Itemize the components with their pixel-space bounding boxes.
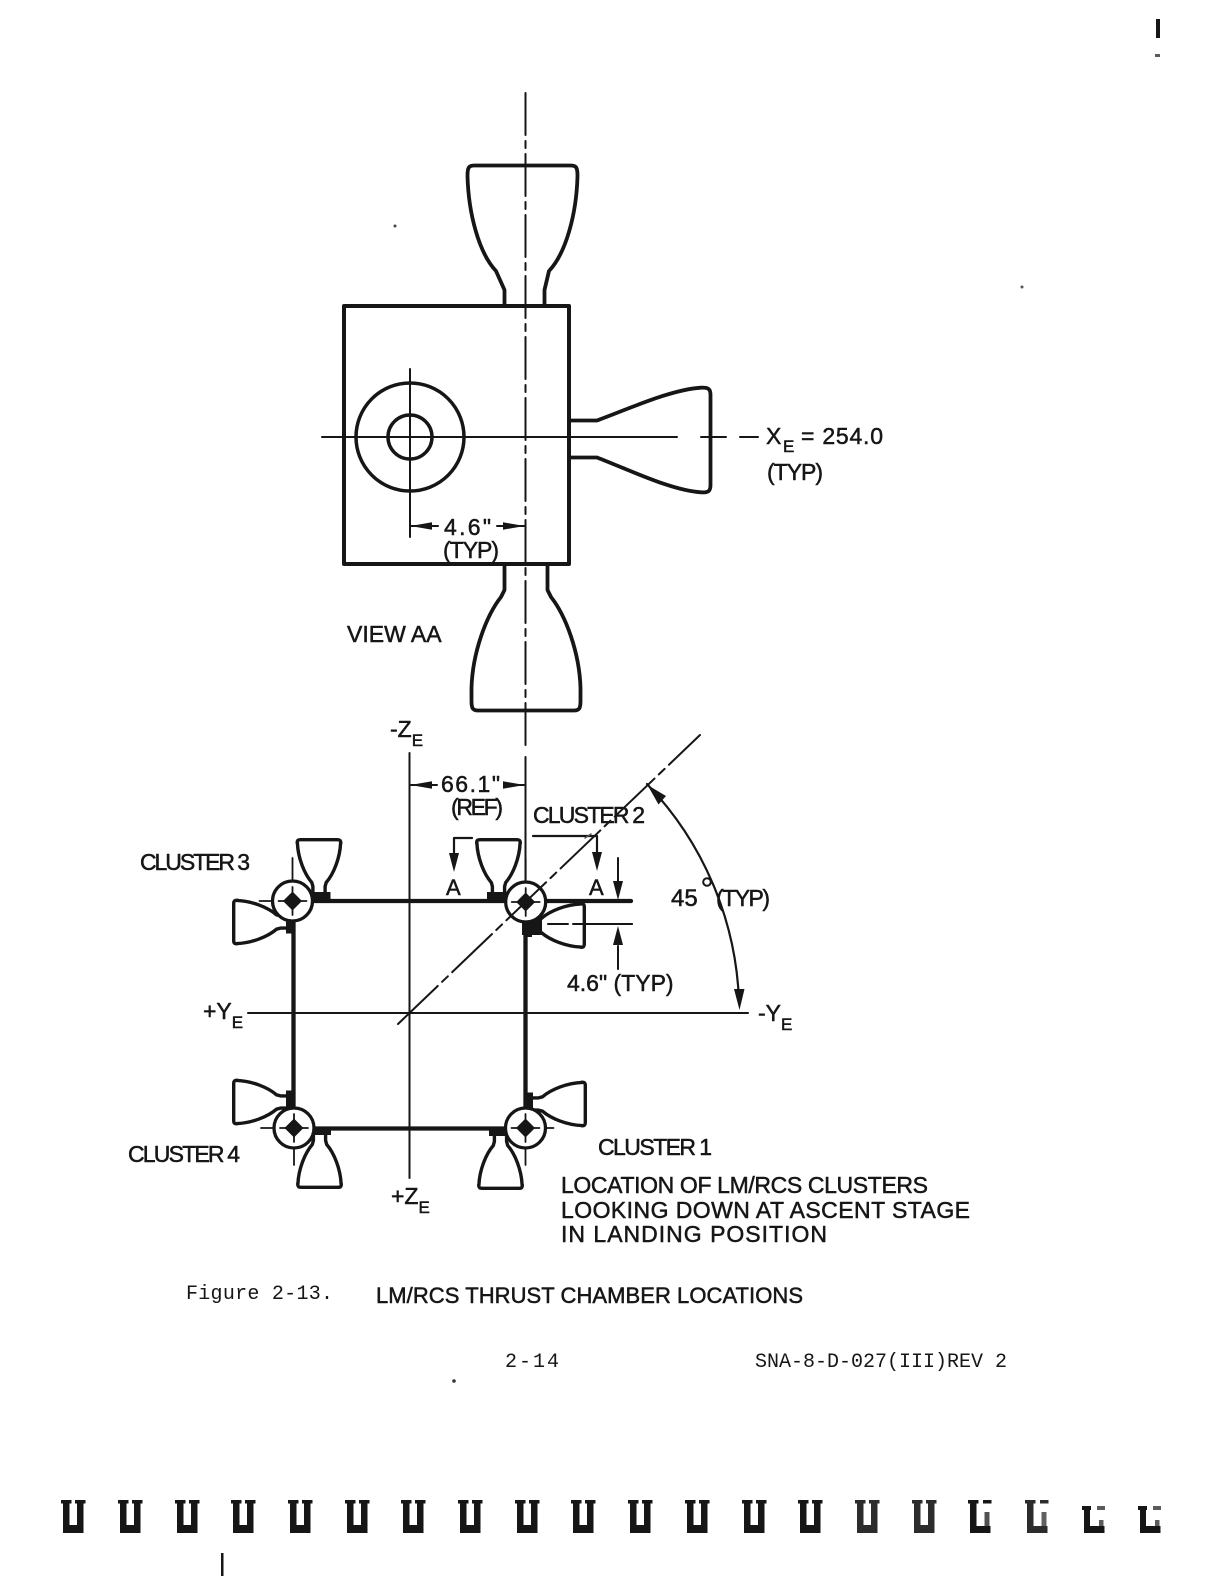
node: paper speck 3: [452, 1379, 456, 1383]
node: square interconnect top edge: [293, 899, 632, 903]
dimension: 45 degree arc with arrows: [647, 784, 739, 1001]
wire: 45 degree diagonal dash-dot line: [398, 735, 700, 1024]
node: square interconnect left edge: [291, 901, 295, 1128]
cluster 1 right nozzle: [525, 1082, 586, 1126]
svg-text:(TYP): (TYP): [716, 885, 770, 911]
dimension: 66.1in REF with arrows: [411, 784, 524, 786]
wire: section centerline above cluster 2: [525, 757, 527, 881]
node: cluster 1 circle: [506, 1108, 546, 1148]
dimension: section A-A right bracket arrow: [533, 836, 597, 855]
svg-text:E: E: [783, 437, 794, 456]
cluster 2 right nozzle extra mount: [522, 915, 542, 935]
cluster 4 down nozzle: [298, 1127, 342, 1188]
cluster 3 left nozzle: [234, 900, 295, 944]
svg-text:A: A: [446, 875, 461, 900]
dimension: section A-A left bracket arrow: [454, 838, 472, 856]
wire: vertical centerline through thruster circle: [409, 369, 411, 537]
node: top nozzle bell: [468, 166, 578, 307]
node: square interconnect right edge: [523, 901, 527, 1128]
svg-text:(REF): (REF): [451, 794, 503, 820]
svg-text:Figure 2-13.: Figure 2-13.: [186, 1283, 333, 1306]
svg-text:LOOKING DOWN AT ASCENT STAGE: LOOKING DOWN AT ASCENT STAGE: [561, 1197, 970, 1223]
svg-text:IN LANDING POSITION: IN LANDING POSITION: [561, 1221, 827, 1247]
node: paper speck 4: [585, 834, 591, 838]
dimension: 4.6in TYP at cluster 2: [548, 923, 632, 925]
svg-text:LOCATION OF LM/RCS CLUSTERS: LOCATION OF LM/RCS CLUSTERS: [561, 1172, 928, 1198]
svg-text:CLUSTER 4: CLUSTER 4: [128, 1141, 240, 1167]
node: bottom nozzle bell: [472, 566, 581, 711]
node: cluster 3 circle: [273, 881, 313, 921]
svg-text:CLUSTER 2: CLUSTER 2: [533, 802, 645, 828]
cluster 4 left nozzle: [234, 1080, 295, 1124]
node: thruster inner circle: [388, 415, 432, 459]
node D: cluster 1 center mark: [493, 1085, 554, 1165]
svg-text:CLUSTER 3: CLUSTER 3: [140, 849, 250, 875]
node: paper speck 1: [394, 225, 397, 228]
svg-text:+ZE: +ZE: [391, 1183, 430, 1217]
svg-text:4.6" (TYP): 4.6" (TYP): [567, 970, 674, 996]
node B: cluster 2 center mark: [493, 859, 554, 939]
node: thruster outer circle: [356, 383, 464, 491]
node: top right registration tick: [1156, 19, 1160, 38]
svg-text:SNA-8-D-027(III)REV 2: SNA-8-D-027(III)REV 2: [755, 1351, 1007, 1374]
cluster 2 up nozzle: [477, 840, 521, 901]
wire: Y axis horizontal line: [248, 1012, 748, 1014]
svg-text:= 254.0: = 254.0: [801, 423, 883, 449]
node: paper speck 2: [1021, 286, 1024, 289]
transistor-like cluster 3 up nozzle: [297, 840, 341, 901]
node: bottom registration tick: [221, 1553, 224, 1576]
svg-text:2-14: 2-14: [505, 1351, 559, 1374]
node: cluster 4 circle: [274, 1108, 314, 1148]
sprocket marks row: [61, 1500, 86, 1533]
svg-text:45: 45: [671, 885, 698, 912]
node C: cluster 4 center mark: [261, 1085, 322, 1165]
cluster 2 right nozzle: [524, 904, 585, 948]
svg-text:+YE: +YE: [203, 998, 243, 1032]
svg-text:CLUSTER 1: CLUSTER 1: [598, 1134, 712, 1160]
node: right nozzle bell: [569, 388, 711, 493]
svg-text:-ZE: -ZE: [390, 716, 423, 750]
wire: Z axis vertical line: [409, 753, 411, 1178]
node: top right speck: [1155, 54, 1160, 57]
svg-text:A: A: [589, 875, 604, 900]
svg-text:X: X: [766, 423, 781, 449]
svg-text:LM/RCS THRUST CHAMBER LOCATION: LM/RCS THRUST CHAMBER LOCATIONS: [376, 1283, 803, 1308]
svg-text:VIEW AA: VIEW AA: [347, 621, 442, 647]
svg-text:(TYP): (TYP): [767, 459, 823, 485]
node: cluster 2 circle: [506, 882, 546, 922]
dimension: 4.6in TYP horizontal with arrows (VIEW AA): [411, 525, 524, 527]
svg-text:-YE: -YE: [758, 1000, 792, 1034]
wire: vertical dash-dot centerline of VIEW AA: [525, 93, 527, 750]
node A: cluster 3 center mark: [260, 858, 321, 938]
node: cluster housing box: [344, 306, 569, 564]
wire: horizontal centerline through thruster circle: [322, 436, 758, 438]
svg-text:(TYP): (TYP): [443, 537, 499, 563]
node: square interconnect bottom edge: [294, 1126, 526, 1130]
cluster 1 down nozzle: [479, 1128, 523, 1189]
